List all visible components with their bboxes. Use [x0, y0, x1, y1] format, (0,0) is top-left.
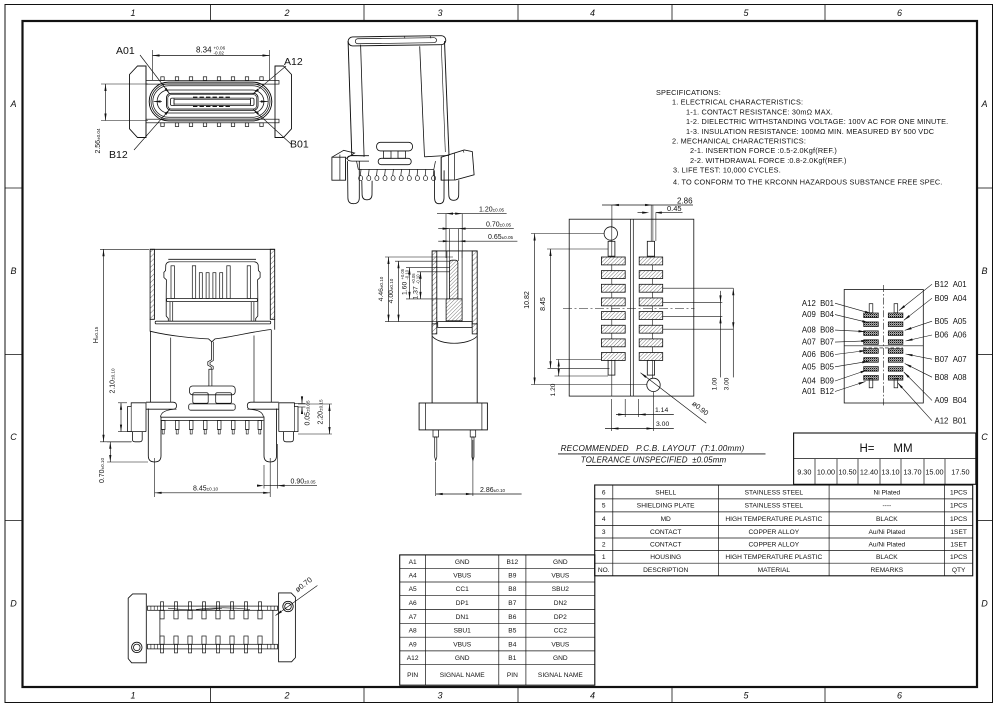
svg-text:1.60: 1.60 [401, 282, 408, 295]
side body [431, 324, 433, 403]
svg-text:A12: A12 [407, 655, 419, 662]
map stubs [869, 304, 873, 313]
svg-text:H=: H= [859, 443, 874, 455]
height option table [794, 433, 976, 484]
left mounting ear [130, 66, 147, 138]
svg-text:3. LIFE TEST: 10,000 CYCLES: 3. LIFE TEST: 10,000 CYCLES. [673, 166, 781, 175]
right board bracket [279, 403, 298, 432]
svg-text:4: 4 [590, 691, 595, 701]
svg-text:10.00: 10.00 [817, 468, 835, 477]
svg-text:HIGH TEMPERATURE PLASTIC: HIGH TEMPERATURE PLASTIC [725, 516, 822, 523]
svg-text:STAINLESS STEEL: STAINLESS STEEL [745, 489, 804, 496]
svg-text:1.20: 1.20 [550, 383, 557, 396]
svg-text:-0.10: -0.10 [405, 269, 410, 279]
svg-text:B05 A05: B05 A05 [935, 317, 968, 326]
svg-text:C: C [10, 432, 17, 442]
svg-text:D: D [10, 599, 17, 609]
center contact stem [208, 342, 212, 386]
svg-text:2.20±0.15: 2.20±0.15 [318, 399, 325, 425]
svg-text:A6: A6 [409, 600, 417, 607]
solder legs [148, 409, 161, 463]
svg-text:4: 4 [590, 8, 595, 18]
dimension 1.60 [406, 267, 450, 269]
svg-text:B9: B9 [508, 572, 516, 579]
dimension 2.10 [118, 402, 127, 404]
svg-text:1-1. CONTACT RESISTANCE: 30m: 1-1. CONTACT RESISTANCE: 30mΩ MAX. [686, 107, 833, 116]
pcb top hole [604, 227, 617, 240]
svg-text:8.34: 8.34 [196, 46, 212, 55]
svg-text:A01: A01 [116, 45, 135, 57]
svg-text:4: 4 [602, 516, 606, 523]
svg-text:1: 1 [130, 691, 135, 701]
3D legs [348, 161, 360, 204]
svg-text:A5: A5 [409, 586, 417, 593]
svg-text:SBU1: SBU1 [454, 628, 472, 635]
dimension 4.46 [385, 256, 453, 258]
left board bracket [128, 403, 146, 432]
shell outer oval [149, 82, 272, 121]
side base block [419, 403, 487, 430]
svg-text:0.45: 0.45 [667, 204, 682, 213]
dimension 0.45 pcb [656, 212, 683, 214]
map vertical centerline [883, 285, 885, 407]
svg-text:A: A [9, 99, 16, 109]
svg-text:3.00: 3.00 [724, 377, 731, 390]
svg-text:B12: B12 [109, 149, 128, 161]
svg-text:SHELL: SHELL [655, 489, 676, 496]
pin assignment map view [844, 285, 923, 407]
left bracket plate [128, 594, 146, 663]
dimension 1.14 pcb [624, 399, 626, 417]
svg-text:3.00: 3.00 [656, 421, 669, 428]
svg-text:5: 5 [602, 503, 606, 510]
svg-text:PIN: PIN [507, 672, 518, 679]
svg-text:Au/Ni Plated: Au/Ni Plated [869, 542, 906, 549]
svg-text:A05 B05: A05 B05 [802, 362, 835, 371]
svg-text:A9: A9 [409, 641, 417, 648]
dimension 3.00 pcb bottom [611, 399, 613, 431]
svg-text:B7: B7 [508, 600, 516, 607]
pin signal table [400, 555, 595, 685]
svg-text:CONTACT: CONTACT [650, 529, 681, 536]
svg-text:1. ELECTRICAL CHARACTERISTICS: 1. ELECTRICAL CHARACTERISTICS: [672, 98, 803, 107]
svg-text:8.45±0.10: 8.45±0.10 [193, 486, 219, 493]
svg-text:GND: GND [455, 559, 470, 566]
body outline [159, 610, 161, 644]
top rail [146, 81, 279, 85]
svg-text:B06 A06: B06 A06 [935, 331, 967, 340]
crown base bar [167, 298, 258, 301]
hole diameter leader 0.70 [276, 586, 318, 616]
latch body below crown [169, 302, 171, 322]
dimension 0.70 top [449, 229, 451, 261]
svg-text:0.70±0.10: 0.70±0.10 [99, 458, 106, 484]
3D left flange block [332, 157, 346, 180]
svg-text:GND: GND [553, 559, 568, 566]
svg-text:A4: A4 [409, 572, 417, 579]
svg-text:HIGH TEMPERATURE PLASTIC: HIGH TEMPERATURE PLASTIC [725, 554, 822, 561]
map horizontal line [844, 345, 923, 347]
svg-text:CC1: CC1 [456, 586, 470, 593]
svg-text:H±0.15: H±0.15 [93, 326, 100, 343]
cavity floor plate [438, 322, 473, 328]
svg-text:B5: B5 [508, 628, 516, 635]
svg-text:MATERIAL: MATERIAL [758, 567, 791, 574]
comb teeth [161, 421, 165, 430]
svg-text:MD: MD [661, 516, 671, 523]
base plate and comb [161, 416, 264, 418]
svg-text:10.82: 10.82 [524, 291, 531, 309]
svg-text:4.46±0.10: 4.46±0.10 [378, 276, 385, 301]
svg-text:6: 6 [897, 691, 902, 701]
tongue [167, 93, 259, 110]
svg-text:GND: GND [455, 655, 470, 662]
dimension 0.05 [294, 403, 306, 405]
svg-text:1SET: 1SET [950, 542, 967, 549]
perspective view of vertical connector [332, 36, 474, 204]
dimension 0.70 [107, 441, 132, 443]
svg-text:DP2: DP2 [554, 614, 567, 621]
3D comb plate [358, 168, 434, 170]
svg-text:2.56±0.04: 2.56±0.04 [95, 128, 102, 154]
svg-text:1.14: 1.14 [655, 407, 668, 414]
svg-text:2. MECHANICAL CHARACTERISTICS: 2. MECHANICAL CHARACTERISTICS: [672, 137, 806, 146]
paddle base bar [189, 404, 236, 410]
svg-text:QTY: QTY [952, 567, 966, 574]
dimension 1.20 pcb [556, 359, 602, 361]
svg-text:D: D [981, 599, 988, 609]
crown slots [171, 266, 174, 299]
svg-text:REMARKS: REMARKS [871, 567, 904, 574]
dimension 2.20 [298, 403, 332, 405]
side section view [419, 251, 487, 461]
side mold arc [433, 337, 477, 344]
dimension 0.90 [263, 465, 265, 489]
3D right flange block [441, 150, 474, 180]
pad leader lines right [663, 287, 734, 289]
svg-text:BLACK: BLACK [876, 516, 898, 523]
svg-text:4. TO CONFORM TO THE KRCON: 4. TO CONFORM TO THE KRCONN HAZARDOUS SU… [673, 177, 943, 186]
svg-text:2.86±0.10: 2.86±0.10 [480, 487, 506, 494]
svg-text:GND: GND [553, 655, 568, 662]
svg-text:2-2. WITHDRAWAL FORCE :0.8-2: 2-2. WITHDRAWAL FORCE :0.8-2.0Kgf(REF.) [690, 156, 847, 165]
svg-text:VBUS: VBUS [551, 641, 570, 648]
svg-text:6: 6 [602, 489, 606, 496]
svg-text:1-2. DIELECTRIC WITHSTANDING: 1-2. DIELECTRIC WITHSTANDING VOLTAGE: 10… [686, 117, 948, 126]
svg-text:1.20±0.05: 1.20±0.05 [479, 206, 505, 213]
svg-text:B8: B8 [508, 586, 516, 593]
right bracket plate [279, 593, 296, 662]
svg-text:1SET: 1SET [950, 529, 967, 536]
dimension 1.20 top [445, 214, 447, 258]
dimension 0.65 top [438, 240, 517, 242]
svg-text:0.90±0.05: 0.90±0.05 [291, 479, 317, 486]
svg-text:3: 3 [437, 691, 442, 701]
svg-text:B4: B4 [508, 641, 516, 648]
svg-text:SPECIFICATIONS:: SPECIFICATIONS: [656, 88, 721, 97]
svg-text:2: 2 [283, 8, 289, 18]
svg-text:1: 1 [602, 554, 606, 561]
dimension 10.82 pcb [531, 233, 604, 235]
svg-text:17.50: 17.50 [951, 468, 969, 477]
dimension 1.37 [417, 271, 450, 273]
svg-text:A12: A12 [284, 56, 303, 68]
svg-text:VBUS: VBUS [453, 641, 472, 648]
svg-text:SHIELDING PLATE: SHIELDING PLATE [637, 503, 695, 510]
svg-text:A8: A8 [409, 628, 417, 635]
base arms [146, 402, 177, 409]
front view: receptacle mating-face [130, 66, 292, 138]
svg-text:6: 6 [897, 8, 902, 18]
bottom rail [146, 119, 279, 123]
svg-text:4.00±0.10: 4.00±0.10 [388, 278, 395, 303]
svg-text:8.45: 8.45 [540, 297, 547, 311]
pcb bottom stubs [608, 360, 615, 375]
dimension 2.86 pcb [611, 205, 613, 227]
svg-text:9.30: 9.30 [797, 468, 811, 477]
bottom plate [155, 321, 271, 324]
recommended PCB layout view [563, 219, 695, 396]
bottom view pins [161, 602, 164, 611]
latch sides below wave [149, 332, 151, 403]
side pins [433, 430, 439, 437]
svg-text:2-1. INSERTION FORCE :0.5-2.: 2-1. INSERTION FORCE :0.5-2.0Kgf(REF.) [690, 146, 837, 155]
svg-text:DESCRIPTION: DESCRIPTION [643, 567, 688, 574]
contact dashes [193, 96, 232, 98]
svg-text:B: B [981, 266, 987, 276]
inner housing crown [164, 262, 170, 322]
paddle section [190, 386, 236, 395]
svg-text:HOUSING: HOUSING [650, 554, 681, 561]
svg-text:A1: A1 [409, 559, 417, 566]
svg-text:A12 B01: A12 B01 [802, 299, 834, 308]
dimension 2.56 [101, 83, 148, 85]
dimension 4.00 [395, 260, 450, 262]
dimension 8.34 [152, 50, 154, 80]
tongue section [450, 260, 458, 299]
pcb pads right column [639, 257, 663, 265]
pcb outline [569, 219, 694, 396]
svg-text:B08 A08: B08 A08 [935, 373, 967, 382]
svg-text:VBUS: VBUS [551, 572, 570, 579]
extension lines bottoms [385, 321, 437, 323]
svg-text:COPPER ALLOY: COPPER ALLOY [749, 542, 800, 549]
svg-text:DP1: DP1 [456, 600, 469, 607]
svg-text:A12 B01: A12 B01 [935, 416, 967, 425]
svg-text:1.00: 1.00 [711, 377, 718, 390]
svg-text:3: 3 [437, 8, 442, 18]
svg-text:NO.: NO. [598, 567, 610, 574]
svg-text:----: ---- [882, 503, 891, 510]
svg-text:A07 B07: A07 B07 [802, 338, 834, 347]
svg-text:12.40: 12.40 [860, 468, 878, 477]
svg-text:C: C [981, 432, 988, 442]
svg-text:1PCS: 1PCS [950, 489, 968, 496]
dimension 8.45 [154, 458, 156, 497]
bill of materials table [595, 485, 973, 576]
bottom view [128, 593, 295, 663]
3D left flange arm [347, 156, 369, 161]
shell walls (section) [150, 249, 154, 319]
map pads [864, 313, 879, 318]
svg-text:1: 1 [130, 8, 135, 18]
side shell walls [432, 251, 437, 324]
pcb pads left column [601, 257, 625, 265]
svg-text:CC2: CC2 [554, 628, 568, 635]
mold break wave [150, 330, 271, 342]
svg-text:2.10±0.10: 2.10±0.10 [110, 368, 117, 394]
svg-text:B12: B12 [506, 559, 518, 566]
bottom rail [148, 644, 278, 649]
svg-text:A06 B06: A06 B06 [802, 350, 834, 359]
svg-text:STAINLESS STEEL: STAINLESS STEEL [745, 503, 804, 510]
svg-text:10.50: 10.50 [838, 468, 856, 477]
svg-text:PIN: PIN [407, 672, 418, 679]
molded surface arcs [168, 608, 222, 610]
dimension 1.00 pcb [720, 291, 722, 378]
svg-text:B12 A01: B12 A01 [935, 280, 967, 289]
svg-text:B: B [10, 266, 16, 276]
svg-text:1-3. INSULATION RESISTANCE:: 1-3. INSULATION RESISTANCE: 100MΩ MIN. M… [686, 127, 934, 136]
svg-text:13.10: 13.10 [881, 468, 899, 477]
svg-text:2: 2 [283, 691, 289, 701]
svg-text:SBU2: SBU2 [552, 586, 570, 593]
shell tabs [161, 77, 164, 81]
svg-text:RECOMMENDED P.C.B. LAYOUT (: RECOMMENDED P.C.B. LAYOUT (T:1.00mm) [561, 444, 745, 453]
svg-text:13.70: 13.70 [903, 468, 921, 477]
svg-text:0.65±0.05: 0.65±0.05 [488, 234, 514, 241]
svg-text:A08 B08: A08 B08 [802, 326, 834, 335]
pcb top stubs [608, 241, 615, 256]
3D contact comb [359, 170, 362, 176]
dimension 2.86 bottom [435, 462, 437, 496]
svg-text:0.70±0.05: 0.70±0.05 [486, 221, 512, 228]
3D shell body [348, 41, 352, 155]
svg-text:SIGNAL NAME: SIGNAL NAME [440, 672, 485, 679]
svg-text:TOLERANCE UNSPECIFIED ±0.05mm: TOLERANCE UNSPECIFIED ±0.05mm [581, 456, 727, 465]
dimension 8.45 pcb [547, 248, 608, 250]
svg-text:B09 A04: B09 A04 [935, 294, 968, 303]
svg-text:1PCS: 1PCS [950, 503, 968, 510]
pcb bottom hole [647, 378, 660, 391]
svg-text:A04 B09: A04 B09 [802, 377, 834, 386]
dimension 3.00 pcb right [732, 288, 734, 377]
svg-text:2: 2 [602, 542, 606, 549]
3D shell opening [348, 36, 446, 46]
dimension H [100, 248, 149, 250]
svg-text:A09 B04: A09 B04 [802, 310, 835, 319]
svg-text:DN2: DN2 [554, 600, 568, 607]
svg-text:Ni Plated: Ni Plated [873, 489, 900, 496]
svg-text:BLACK: BLACK [876, 554, 898, 561]
svg-text:A7: A7 [409, 614, 417, 621]
svg-text:1.37: 1.37 [412, 286, 419, 299]
svg-text:DN1: DN1 [456, 614, 470, 621]
hole diameter leader 0.90 [641, 373, 707, 423]
svg-text:CONTACT: CONTACT [650, 542, 681, 549]
svg-text:MM: MM [893, 443, 912, 455]
3D paddle [377, 142, 413, 151]
svg-text:B6: B6 [508, 614, 516, 621]
svg-text:-0.10: -0.10 [416, 274, 421, 284]
svg-text:B1: B1 [508, 655, 516, 662]
svg-text:Au/Ni Plated: Au/Ni Plated [869, 529, 906, 536]
front section view [128, 249, 298, 462]
svg-text:A09 B04: A09 B04 [935, 396, 968, 405]
svg-text:COPPER ALLOY: COPPER ALLOY [749, 529, 800, 536]
right mounting ear [275, 66, 292, 138]
pcb horizontal centerline [563, 308, 695, 310]
svg-text:-0.02: -0.02 [214, 51, 225, 56]
pcb slot centerlines [630, 219, 632, 396]
svg-text:3: 3 [602, 529, 606, 536]
svg-text:B01: B01 [290, 139, 309, 151]
svg-text:1PCS: 1PCS [950, 516, 968, 523]
shell width arrows [154, 100, 161, 102]
top rail [148, 606, 278, 610]
svg-text:SIGNAL NAME: SIGNAL NAME [538, 672, 583, 679]
svg-text:A01 B12: A01 B12 [802, 387, 834, 396]
svg-text:A: A [980, 99, 987, 109]
svg-text:1PCS: 1PCS [950, 554, 968, 561]
svg-text:VBUS: VBUS [453, 572, 472, 579]
svg-text:B07 A07: B07 A07 [935, 355, 967, 364]
svg-text:15.00: 15.00 [925, 468, 943, 477]
